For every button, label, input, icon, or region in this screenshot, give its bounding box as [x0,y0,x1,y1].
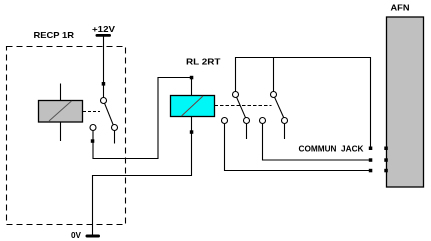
switch A throw NO circle [244,118,250,124]
switch RECP common contact circle [101,98,107,104]
switch B lever [275,97,284,117]
switch A throw NC circle [222,118,228,124]
switch RECP lever [105,103,114,124]
svg-text:COMMUN JACK: COMMUN JACK [299,144,365,154]
terminal square jack row3 [369,169,373,173]
relay coil RL 2RT [171,96,215,117]
wire RECP NC throw to RL coil top [93,78,192,159]
junction square on RL coil bottom wire [190,130,194,134]
power symbol +12V bar [96,34,112,37]
junction square on +12V wire [102,82,106,86]
svg-text:AFN: AFN [391,3,410,13]
switch B common circle [271,92,277,98]
svg-text:RECP 1R: RECP 1R [34,30,75,40]
wire switch A NO stub [246,124,248,139]
switch RECP throw NC circle [90,125,96,131]
wire switch B common to bus [273,58,275,92]
wire coil RECP top stub [60,84,62,101]
terminal square jack row1 [369,147,373,151]
wire switch B NO stub [284,124,286,139]
switch B throw NC circle [260,118,266,124]
dashed mechanical link RL [215,105,272,107]
dashed enclosure RECP 1R [7,47,126,225]
wire switch B NC to jack row2 [263,124,370,160]
svg-text:+12V: +12V [92,25,116,34]
switch B throw NO circle [282,118,288,124]
ground symbol 0V bar [86,235,101,238]
junction square at RL coil feed [190,76,194,80]
svg-text:0V: 0V [71,231,82,240]
wire RL coil bottom to 0V ground [93,117,192,235]
connector pin square row2 [384,158,388,162]
terminal square jack row2 [369,158,373,162]
connector pin square row1 [384,147,388,151]
connector AFN [387,17,424,187]
svg-text:RL 2RT: RL 2RT [186,57,221,67]
relay coil RECP 1R [39,101,83,123]
wire coil RECP bottom stub [60,122,62,141]
switch A common circle [233,92,239,98]
wire NO stub RECP [114,131,116,144]
switch A lever [237,97,246,118]
wire switch A NC to jack row3 [225,124,370,171]
bus wire common to AFN row1 [236,58,371,147]
wire +12V down to switch common [103,37,105,98]
switch RECP throw NO circle [112,125,118,131]
connector pin square row3 [384,169,388,173]
dashed mechanical link RECP [83,111,100,113]
junction square on NC wire [91,139,95,143]
